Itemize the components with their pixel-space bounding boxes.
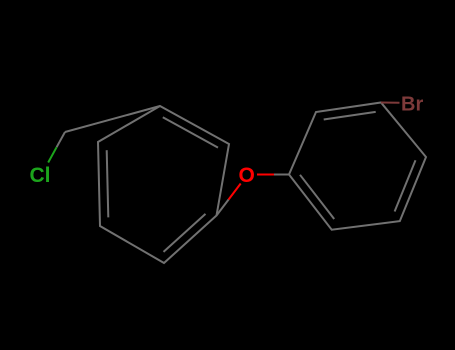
svg-text:Br: Br bbox=[401, 93, 423, 115]
svg-text:Cl: Cl bbox=[30, 164, 51, 187]
svg-text:O: O bbox=[239, 164, 255, 187]
